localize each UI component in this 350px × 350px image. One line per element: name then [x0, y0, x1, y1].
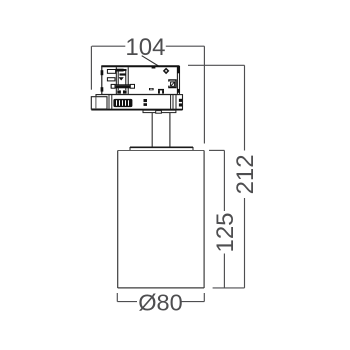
clip B [144, 99, 148, 102]
ribbed knob [113, 99, 132, 107]
dimension 125 line upper segment [223, 150, 225, 211]
plate notch [156, 111, 162, 114]
terminal slot 1 [107, 70, 115, 74]
rail outline [96, 95, 183, 110]
dimension 104 line right segment [166, 45, 205, 47]
dimension 104 right extension line [203, 46, 205, 143]
central mechanism inner verticals [117, 71, 119, 90]
adapter body right edge (double) [176, 66, 178, 95]
left edge tab lower [101, 87, 104, 91]
dimension 104 left extension line [90, 46, 92, 89]
mounting plate [143, 110, 176, 112]
switch component [169, 80, 176, 88]
central mechanism frame right [127, 67, 129, 94]
lid left edge [129, 147, 131, 150]
dimension 125 line lower segment [223, 254, 225, 288]
mechanism bottom blob right [123, 90, 127, 93]
lid top edge [130, 146, 193, 148]
dimension 212 line upper segment [244, 65, 246, 150]
central mechanism mid block [120, 73, 126, 75]
stem right edge [169, 113, 171, 147]
rail end cap [175, 95, 177, 110]
terminal block small [149, 88, 154, 90]
adapter body left edge [101, 66, 103, 95]
shared bottom extension line [213, 287, 245, 289]
adapter body top edge [101, 65, 179, 67]
mechanism bottom blob left [117, 90, 121, 93]
svg-text:212: 212 [232, 154, 259, 194]
cylinder left edge [117, 151, 119, 289]
cylinder right edge [203, 151, 205, 289]
central mechanism top cap [116, 69, 124, 72]
rail step lines [108, 95, 110, 110]
top edge tick [152, 67, 156, 69]
lid right edge [192, 147, 194, 150]
crossbar center fill [116, 85, 130, 87]
crossbar right square [130, 84, 134, 88]
dimension 104 line left segment [92, 45, 126, 47]
cylinder bottom edge [118, 287, 204, 289]
crossbar [111, 85, 134, 88]
dimension 80 right tick [203, 293, 205, 302]
latch [91, 97, 107, 109]
adapter body bottom edge [102, 94, 180, 96]
terminal slot 2 [107, 78, 115, 81]
dimension 212 line lower segment [244, 198, 246, 288]
leader line [142, 56, 159, 66]
H clip [158, 89, 164, 91]
crossbar left square [111, 84, 115, 88]
dimension 125 top extension line [209, 149, 224, 151]
right edge tab lower [177, 89, 180, 93]
left edge tab upper [101, 70, 104, 75]
diamond knob [163, 68, 170, 75]
cylinder top edge [118, 150, 204, 152]
central mechanism arrow [119, 77, 124, 80]
svg-text:104: 104 [125, 34, 165, 61]
right edge tab upper [177, 66, 180, 73]
svg-text:125: 125 [212, 212, 239, 252]
svg-text:Ø80: Ø80 [138, 290, 182, 316]
rail right double verticals [170, 95, 172, 110]
dimension 80 line left segment [117, 301, 137, 303]
dimension 80 left tick [116, 293, 118, 302]
rail bottom thick edge [91, 109, 182, 111]
dimension 212 top extension line [188, 64, 245, 66]
stem left edge [151, 113, 153, 147]
dimension 80 line right segment [182, 301, 205, 303]
central mechanism frame left [115, 67, 117, 94]
